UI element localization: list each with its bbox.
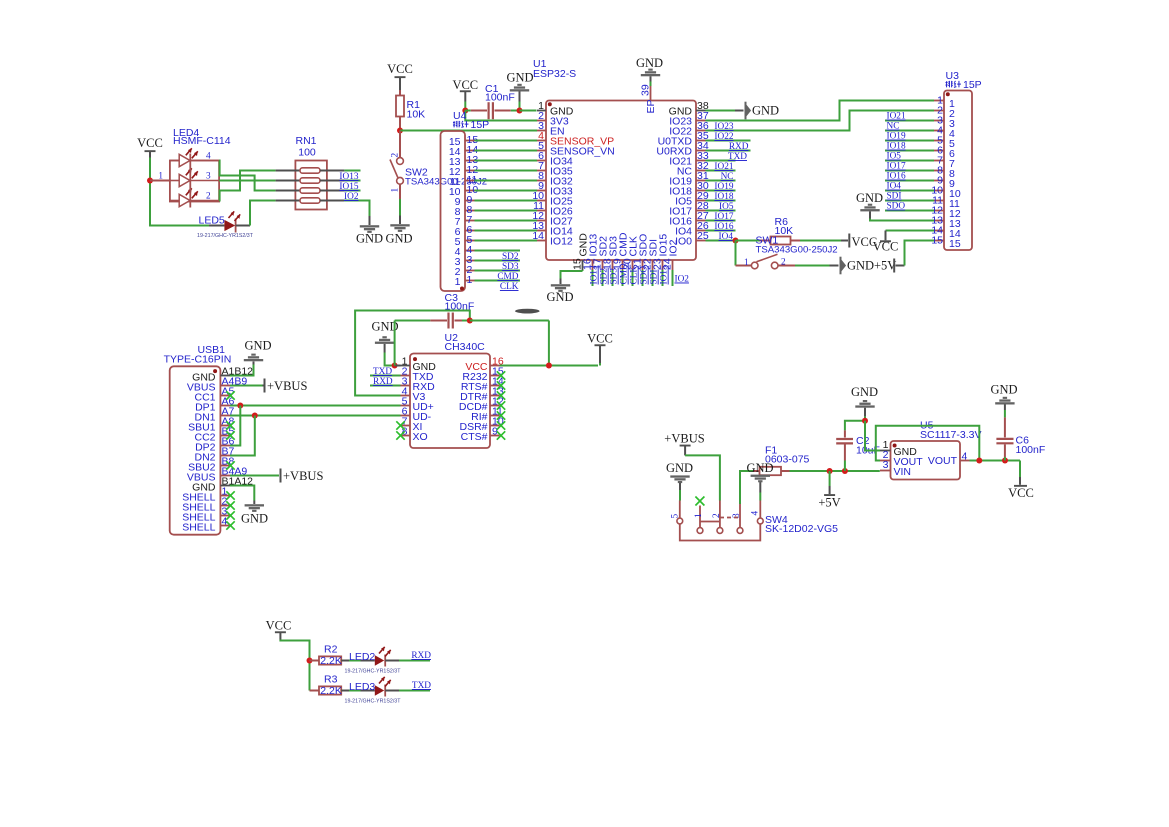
U1 bottom pin leads	[583, 260, 673, 270]
U5 left pin numbers	[883, 439, 889, 471]
wire U2 GND junction	[385, 353, 395, 366]
svg-text:IO17: IO17	[714, 212, 733, 222]
svg-text:VCC: VCC	[873, 240, 899, 254]
ground flag (EP)	[636, 56, 663, 82]
net label IO23 (pin36)	[714, 122, 733, 132]
ground flag (C2/U5)	[851, 385, 878, 421]
junction LED4 pin1	[147, 178, 153, 184]
no-connect marks U2 XI XO	[396, 421, 404, 439]
junction C1 right / GND	[517, 108, 523, 114]
svg-text:19-217/GHC-YR1S2/3T: 19-217/GHC-YR1S2/3T	[345, 698, 402, 704]
wire VCC to LED4 pin1 and LED5	[150, 158, 209, 226]
wire U1 stub net IO17	[706, 220, 736, 222]
label R6	[775, 216, 794, 237]
ground flag (C6)	[990, 383, 1017, 418]
wire U1 pin33 stub net TXD	[706, 160, 736, 162]
svg-text:IO18: IO18	[714, 192, 733, 202]
svg-text:5: 5	[671, 514, 681, 519]
svg-text:TXD: TXD	[728, 152, 747, 162]
ground RN1 row4	[356, 216, 383, 246]
U1 bottom pin numbers	[572, 258, 674, 270]
U1 left pin leads	[537, 111, 546, 241]
net label CLK	[500, 282, 519, 292]
svg-text:R2: R2	[324, 644, 338, 656]
wire GND to SW4 pin5	[679, 490, 681, 501]
pin number LED4-3	[206, 172, 211, 182]
ground U1 pin15	[546, 279, 573, 305]
wires U4 pins 15-5 to U1 pins 4-14	[475, 141, 538, 241]
svg-text:2: 2	[781, 258, 786, 268]
svg-text:VCC: VCC	[1008, 486, 1034, 500]
U2 left pin names	[413, 361, 437, 443]
wire SW1 pin2 to GND port	[795, 265, 839, 267]
power flag VCC (U2)	[587, 332, 613, 366]
net label IO18 (U3)	[887, 142, 906, 152]
svg-text:GND: GND	[385, 232, 412, 246]
value R3 2.2K	[320, 685, 342, 697]
svg-text:+VBUS: +VBUS	[664, 432, 704, 446]
net label TXD (pin33)	[728, 152, 747, 162]
label U5 refdes	[920, 420, 981, 442]
net label IO16 (U3)	[887, 172, 906, 182]
wire U1 stub net IO19	[706, 190, 736, 192]
svg-text:GND: GND	[990, 383, 1017, 397]
no-connect mark SW4 pin1	[695, 497, 704, 506]
wire F1 to U5 VIN	[790, 470, 880, 472]
port flag +VBUS (A4B9)	[264, 379, 308, 394]
LED LED5 power indicator	[209, 211, 250, 232]
ground SW2	[385, 216, 412, 246]
resistor R2 2.2K	[310, 656, 350, 664]
wire U1 pin38 to GND port	[706, 110, 744, 112]
pin number SW4-2	[712, 513, 722, 518]
wire USB1 B1A12 to ground	[230, 486, 254, 501]
wire V3 loop to C3	[355, 311, 470, 396]
wire GND to U3 pin13	[870, 219, 934, 221]
wire +VBUS to SW4 pin2	[685, 455, 720, 500]
label LED3 refdes	[349, 681, 375, 693]
svg-text:VCC: VCC	[387, 62, 413, 76]
power flag +VBUS (SW4)	[664, 432, 704, 456]
svg-text:IO15: IO15	[339, 182, 358, 192]
wire R3 to LED3	[349, 690, 375, 692]
junction C1 left / VCC	[462, 108, 468, 114]
USB1 pin leads	[220, 376, 230, 526]
port flag +5V (U3 pin15)	[874, 259, 905, 273]
svg-text:1: 1	[694, 513, 704, 518]
wire U1 pin35 stub net IO22	[706, 140, 751, 142]
svg-text:TXD: TXD	[373, 367, 392, 377]
wire DP1 to U2 UD+	[230, 405, 401, 407]
net label IO13	[339, 172, 358, 182]
net label IO4 (pin25)	[719, 232, 734, 242]
wire LED3 to TXD net	[399, 690, 430, 692]
svg-text:SC1117-3.3V: SC1117-3.3V	[920, 429, 981, 441]
wire GND junction to U1 pin1	[520, 110, 537, 112]
pin number LED4-4	[206, 152, 211, 162]
svg-text:IO12: IO12	[550, 235, 573, 247]
wire U3 stub net NC	[885, 130, 934, 132]
power flag VCC (LED4 supply)	[137, 136, 163, 158]
wire LED2 to RXD net	[399, 660, 430, 662]
label SW2 refdes	[405, 167, 487, 188]
port flag +VBUS (B4A9)	[280, 469, 324, 484]
pin numbers U4 inside	[449, 136, 461, 288]
svg-text:1: 1	[158, 172, 163, 182]
svg-text:CMD: CMD	[497, 272, 518, 282]
svg-text:SD2: SD2	[502, 252, 519, 262]
power flag +5V (inverted)	[818, 471, 840, 510]
wire C3 to VCC riser	[470, 320, 549, 322]
U1 pin EP lead	[650, 82, 652, 101]
net label IO21	[714, 162, 733, 172]
wire U1 stub net NC	[706, 180, 736, 182]
svg-text:SDO: SDO	[640, 266, 650, 285]
svg-text:IO2: IO2	[344, 192, 359, 202]
power flag VCC (3V3 rail)	[452, 78, 478, 102]
ground flag (U3 pin13)	[856, 191, 883, 219]
svg-text:GND: GND	[666, 461, 693, 475]
U5 right pin name VOUT	[928, 455, 958, 467]
pin numbers U4 outside	[467, 134, 479, 286]
wire U3 stub net IO21	[885, 120, 934, 122]
wire LED5 cathode to RN1 row4	[250, 201, 276, 226]
svg-text:IO13: IO13	[339, 172, 358, 182]
svg-text:2: 2	[712, 513, 722, 518]
no-connect marks USB1	[226, 391, 234, 529]
net label IO18	[714, 192, 733, 202]
label U2 refdes	[445, 332, 486, 353]
power flag VCC (output, inverted)	[1008, 461, 1034, 501]
U1 right pin leads	[696, 111, 706, 241]
wire USB1 A1B12 to ground	[230, 365, 254, 376]
label SW1 refdes	[756, 235, 838, 256]
capacitor C1 100nF	[465, 102, 519, 119]
svg-text:GND: GND	[746, 461, 773, 475]
junction IO0 net	[733, 238, 739, 244]
junction C3 right	[467, 318, 473, 324]
junction VOUT	[976, 458, 982, 464]
LED LED4 HSMF-C114 body	[170, 148, 219, 207]
pin number SW4-4	[751, 511, 761, 516]
U5 pin leads left	[880, 451, 891, 471]
pin number SW2-2	[391, 153, 401, 158]
net label IO17	[714, 212, 733, 222]
capacitor C2 10uF	[836, 430, 853, 471]
power flag VCC (U3 pin14, inverted)	[873, 231, 899, 254]
wire U1 stub net IO5	[706, 210, 736, 212]
LED LED3 (TXD indicator)	[375, 677, 399, 697]
net label TXD (LED3)	[412, 681, 431, 691]
wire junction to U2 pin1	[395, 365, 401, 367]
label U1 refdes	[533, 58, 576, 80]
wire U4 pin2 stub net SD3	[475, 270, 521, 272]
svg-text:SDO: SDO	[887, 202, 906, 212]
wire RN1 row4 to ground	[344, 201, 369, 217]
port flag GND (SW1)	[840, 257, 875, 275]
label U3 value paizhen15P	[946, 79, 982, 91]
wire VCC flag to U3 pin14	[886, 230, 935, 232]
label LED5 partnumber	[197, 233, 254, 239]
svg-text:+5V: +5V	[818, 496, 840, 510]
net label RXD (LED2)	[411, 651, 431, 661]
svg-text:GND: GND	[851, 385, 878, 399]
svg-text:NC: NC	[887, 122, 900, 132]
wire C3 left riser	[394, 321, 396, 366]
svg-text:R3: R3	[324, 674, 338, 686]
junction U5 GND	[862, 418, 868, 424]
svg-text:IO15: IO15	[660, 265, 670, 284]
wire U1 stub net IO16	[706, 230, 736, 232]
wire U1 pin37 to U3 pin1	[706, 101, 935, 121]
svg-text:VCC: VCC	[266, 619, 292, 633]
pin number SW1-1	[744, 258, 749, 268]
svg-text:VCC: VCC	[587, 332, 613, 346]
wire EN net to U1 pin3	[400, 130, 537, 132]
net label IO2 (pin24)	[675, 275, 690, 285]
label LED3 partnumber	[345, 698, 402, 704]
svg-text:SD3: SD3	[610, 268, 620, 285]
svg-text:3: 3	[732, 513, 742, 518]
wire VCC flag to junction	[464, 102, 466, 111]
switch SW4 SK-12D02-VG5	[677, 501, 763, 541]
svg-text:VIN: VIN	[894, 466, 912, 478]
U2 left pin leads	[401, 366, 411, 436]
svg-text:3: 3	[883, 459, 889, 471]
svg-text:1: 1	[391, 188, 401, 193]
wire DP2 riser	[230, 406, 240, 446]
wire C2 to GND junction	[845, 421, 865, 431]
svg-text:GND: GND	[241, 512, 268, 526]
svg-text:VCC: VCC	[137, 136, 163, 150]
net label IO4 (U3)	[887, 182, 902, 192]
svg-text:2.2K: 2.2K	[320, 685, 342, 697]
net label RXD (pin34)	[729, 142, 749, 152]
svg-text:CMD: CMD	[620, 263, 630, 284]
svg-text:4: 4	[206, 152, 211, 162]
svg-text:GND: GND	[856, 191, 883, 205]
svg-text:14: 14	[532, 230, 544, 242]
svg-text:LED2: LED2	[349, 651, 375, 663]
svg-text:IO4: IO4	[887, 182, 902, 192]
label LED2 refdes	[349, 651, 375, 663]
svg-text:19-217/GHC-YR1S2/3T: 19-217/GHC-YR1S2/3T	[197, 233, 254, 239]
svg-text:SD2: SD2	[600, 268, 610, 285]
wire junction to R6	[736, 240, 760, 242]
label USB1 refdes	[164, 344, 232, 366]
svg-text:EP: EP	[645, 99, 657, 113]
fuse F1 0603-075	[753, 467, 790, 475]
junction U2 GND / C3	[392, 363, 398, 369]
svg-text:+VBUS: +VBUS	[267, 379, 307, 393]
wire VCC riser to U2 pin16	[548, 321, 550, 366]
wire RN1 row1 stub	[344, 170, 360, 172]
svg-text:GND: GND	[506, 71, 533, 85]
svg-text:4: 4	[962, 451, 968, 463]
wire U5 VOUT output	[970, 460, 1021, 462]
ground flag (SW4 pin4)	[746, 461, 773, 493]
svg-text:+VBUS: +VBUS	[283, 469, 323, 483]
U2 right pin names	[459, 361, 488, 443]
resistor R1 10K	[396, 90, 404, 131]
svg-text:NC: NC	[721, 172, 734, 182]
pin name EP	[645, 99, 657, 113]
wire GND flag to junction	[519, 102, 521, 111]
junction DP1/DP2	[237, 403, 243, 409]
junction C2	[842, 468, 848, 474]
svg-text:CLK: CLK	[630, 266, 640, 285]
label C1	[485, 83, 515, 104]
wire U2 RXD net	[370, 385, 401, 387]
svg-text:IO4: IO4	[719, 232, 734, 242]
junction +5V	[827, 468, 833, 474]
resistor R3 2.2K	[310, 686, 350, 694]
wire RN1 row2 stub net IO13	[344, 180, 360, 182]
junction R1 bottom / EN net	[397, 128, 403, 134]
junction R2	[307, 658, 313, 664]
svg-text:10K: 10K	[407, 109, 426, 121]
net label SD2	[502, 252, 519, 262]
resistor network RN1 body	[276, 161, 345, 210]
net label IO5 (U3)	[887, 152, 902, 162]
svg-text:GND: GND	[636, 56, 663, 70]
svg-text:IO13: IO13	[590, 265, 600, 284]
wire U2 pin16 VCC net	[500, 365, 599, 367]
svg-text:VOUT: VOUT	[928, 455, 958, 467]
svg-text:HSMF-C114: HSMF-C114	[173, 135, 231, 147]
pin number SW4-1	[694, 513, 704, 518]
svg-text:GND: GND	[356, 232, 383, 246]
label U4 value paizhen15P	[453, 119, 489, 131]
no-connect marks U2 right	[497, 371, 505, 439]
wire GND junction to U5 pin1	[865, 421, 880, 451]
svg-text:15P: 15P	[471, 119, 490, 131]
wire R2 to LED2	[349, 660, 375, 662]
label C2	[856, 435, 880, 457]
pin number SW4-3	[732, 513, 742, 518]
net label IO22	[714, 132, 733, 142]
wire U4 pin4 stub	[475, 250, 521, 252]
svg-text:LED5: LED5	[199, 215, 225, 227]
label U3 refdes	[946, 70, 960, 82]
wire LED4 pin1 lead	[150, 180, 170, 182]
U2 right pin leads	[490, 366, 500, 436]
svg-text:IO19: IO19	[714, 182, 733, 192]
svg-text:VCC: VCC	[452, 78, 478, 92]
pin number LED4-2	[206, 192, 211, 202]
svg-text:2.2K: 2.2K	[320, 655, 342, 667]
switch SW2 TSA343G00 (EN button)	[390, 131, 403, 200]
wires U1 bottom pins 16-24 stubs	[593, 270, 673, 286]
wire RN1 row3 stub net IO15	[344, 190, 360, 192]
switch SW1 TSA343G00-250J2 (BOOT button)	[736, 254, 796, 269]
power flag VCC (LED2/3)	[266, 619, 292, 640]
wire U3 stub net IO16	[885, 180, 934, 182]
port flag GND (pin38)	[745, 102, 780, 120]
ground (USB1 top, inverted)	[244, 339, 272, 365]
wire LED4 pin3 to RN1 row2	[219, 180, 276, 182]
decoration ellipse	[515, 309, 539, 314]
wire U3 stub net IO4	[885, 190, 934, 192]
svg-text:RXD: RXD	[729, 142, 749, 152]
svg-text:4: 4	[751, 511, 761, 516]
ground flag (U2 pin1, inverted)	[371, 320, 398, 353]
label LED4 refdes	[173, 127, 231, 147]
svg-text:IO17: IO17	[887, 162, 906, 172]
label RN1 refdes	[295, 135, 316, 159]
pin numbers U3 outside	[931, 95, 943, 247]
svg-text:IO2: IO2	[675, 275, 690, 285]
svg-text:IO21: IO21	[714, 162, 733, 172]
wire DN2 riser	[230, 416, 255, 456]
svg-text:ESP32-S: ESP32-S	[533, 68, 576, 80]
port flag VCC (R6)	[848, 234, 877, 250]
svg-text:1: 1	[455, 276, 461, 288]
svg-text:15P: 15P	[963, 79, 982, 91]
wire U2 TXD net	[370, 375, 401, 377]
net label SD3	[502, 262, 519, 272]
wire DN1 to U2 UD-	[230, 415, 401, 417]
svg-text:IO5: IO5	[719, 202, 734, 212]
svg-text:1: 1	[467, 274, 473, 286]
svg-text:CTS#: CTS#	[461, 431, 488, 443]
svg-text:U4: U4	[453, 110, 467, 122]
svg-text:RN1: RN1	[295, 135, 316, 147]
svg-text:SDI: SDI	[650, 270, 660, 285]
wire LED4 pin2 to RN1 row1	[219, 171, 276, 201]
pin number SW2-1	[391, 188, 401, 193]
svg-text:3: 3	[206, 172, 211, 182]
label C3	[445, 292, 475, 313]
wire VCC to R2/R3	[280, 640, 309, 691]
svg-text:IO2: IO2	[667, 239, 679, 256]
svg-text:IO21: IO21	[887, 112, 906, 122]
IC U2 CH340C body	[410, 354, 490, 449]
wire LED4 pin4 to RN1 row3	[219, 161, 276, 191]
svg-text:100nF: 100nF	[445, 301, 475, 313]
svg-text:IO23: IO23	[714, 122, 733, 132]
U5 left pin names	[894, 446, 924, 478]
svg-text:RXD: RXD	[411, 651, 431, 661]
svg-text:IO5: IO5	[887, 152, 902, 162]
wire USB1 B4A9 to +VBUS port	[230, 475, 279, 477]
U1 left pin numbers	[532, 100, 544, 242]
wire U3 stub net IO5	[885, 160, 934, 162]
wire IO0 to SW1	[735, 241, 737, 266]
svg-text:TXD: TXD	[412, 681, 431, 691]
value R2 2.2K	[320, 655, 342, 667]
label LED5 refdes	[199, 215, 225, 227]
svg-text:TSA343G00-250J2: TSA343G00-250J2	[756, 245, 838, 256]
net label RXD (U2)	[373, 377, 393, 387]
svg-text:100nF: 100nF	[485, 92, 515, 104]
svg-text:15: 15	[949, 238, 961, 250]
junction U2 VCC	[546, 363, 552, 369]
capacitor C6 100nF	[996, 417, 1013, 460]
svg-text:RXD: RXD	[373, 377, 393, 387]
wire U1 pin36 to U3 pin2 net IO23	[706, 111, 935, 131]
U5 pin lead right	[960, 460, 970, 462]
svg-text:1: 1	[744, 258, 749, 268]
svg-text:IO16: IO16	[887, 172, 906, 182]
svg-text:IO22: IO22	[714, 132, 733, 142]
label R1	[407, 99, 426, 121]
svg-text:SDI: SDI	[887, 192, 902, 202]
label U4 refdes	[453, 110, 467, 122]
IC U1 ESP32-S body	[546, 101, 696, 261]
ground flag (U1 pin1)	[506, 71, 533, 102]
net label IO17 (U3)	[887, 162, 906, 172]
